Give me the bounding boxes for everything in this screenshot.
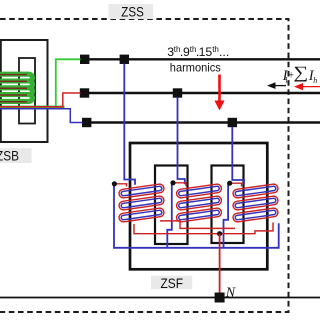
bus phase C (bottom busbar) xyxy=(82,121,320,123)
winding 1 of ZSF (blue inner turns) xyxy=(121,186,162,220)
wire red winding start stub 1 xyxy=(114,184,126,187)
junction dot winding 3 xyxy=(227,181,232,186)
node N xyxy=(215,293,225,303)
junction dot winding 2 xyxy=(170,180,175,185)
wire red winding start stub 2 xyxy=(173,183,186,186)
svg-text:ZSB: ZSB xyxy=(0,147,19,163)
svg-text:ZSF: ZSF xyxy=(161,275,184,291)
neutral conductor (bottom solid line) xyxy=(0,297,320,299)
inductor ZSB outer enclosure xyxy=(1,40,48,142)
label I1 + sum Ih xyxy=(282,64,318,85)
label ZSB xyxy=(0,147,32,163)
bus phase B (middle busbar) xyxy=(80,92,320,94)
label ZSF xyxy=(151,275,192,291)
arrow red down (harmonics injection) xyxy=(214,75,224,111)
junction dot winding 1 xyxy=(112,181,117,186)
svg-text:harmonics: harmonics xyxy=(170,62,221,75)
svg-text:h: h xyxy=(313,76,317,85)
wire red from neutral bus to node N xyxy=(219,234,221,293)
wire red winding start stub 3 xyxy=(230,183,242,186)
wire blue drop from node C2 to winding 3 xyxy=(232,127,244,185)
svg-text:∑: ∑ xyxy=(293,64,308,83)
winding 2 of ZSF (blue inner turns) xyxy=(178,186,219,220)
node A1 xyxy=(80,55,89,64)
wire blue return of winding 1 down to bottom blue link xyxy=(114,184,279,248)
winding 3 of ZSF (red outer turns) xyxy=(233,184,279,223)
winding 1 of ZSF (red outer turns) xyxy=(119,184,165,223)
winding 2 of ZSF (red outer turns) xyxy=(176,184,222,223)
label ZSS xyxy=(108,4,153,20)
arrow red left (harmonic current) xyxy=(294,83,320,90)
wire blue return of winding 2 xyxy=(167,183,172,248)
node A2 xyxy=(120,55,129,64)
winding 3 of ZSF (blue inner turns) xyxy=(235,186,276,220)
wire blue drop from node B2 to winding 2 xyxy=(178,97,185,184)
wire blue return of winding 3 xyxy=(224,183,229,247)
transformer ZSF outer enclosure xyxy=(130,143,267,269)
wire red neutral bus from winding 1 to node N junction xyxy=(134,224,220,234)
node B1 xyxy=(80,88,89,97)
wire red phase lead from ZSB bottom xyxy=(0,93,81,107)
svg-text:ZSS: ZSS xyxy=(121,4,144,20)
node B2 xyxy=(173,88,182,97)
node C1 xyxy=(82,118,91,127)
inductor ZSB winding core stripes xyxy=(0,75,27,102)
transformer ZSF core window 1 xyxy=(155,166,188,245)
inductor ZSB bottom lead (green) xyxy=(0,106,65,110)
wire green phase lead from ZSB to bus A xyxy=(56,59,81,105)
arrow black left (fundamental current) xyxy=(267,82,286,89)
wire red link from winding 1 end to winding 2 end xyxy=(160,221,235,229)
junction dot on neutral bus xyxy=(217,231,222,236)
inductor ZSB core xyxy=(19,58,35,124)
node C2 xyxy=(228,118,237,127)
wire blue drop from node A2 to winding 1 xyxy=(124,64,135,185)
transformer ZSF core window 2 xyxy=(212,166,244,244)
bus phase A (top busbar) xyxy=(80,58,320,60)
wire blue phase lead from ZSB bottom xyxy=(0,109,83,123)
wire red neutral bus right section to winding 3 xyxy=(220,223,273,234)
inductor ZSB winding (green helix) xyxy=(0,74,33,101)
